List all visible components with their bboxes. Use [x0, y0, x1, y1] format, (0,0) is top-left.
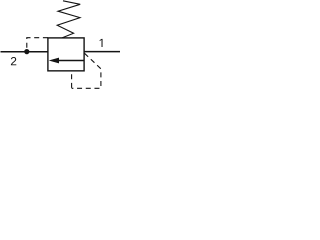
pressure reducing valve schematic [0, 0, 121, 91]
label port 1 [100, 39, 103, 47]
valve body box [48, 38, 84, 71]
wire drain dashed (right) [72, 53, 101, 88]
spring [57, 1, 80, 38]
wire pilot dashed (left) [27, 38, 48, 50]
arrow in valve body [49, 58, 59, 64]
node junction dot [24, 49, 29, 54]
wire port 1 line [84, 51, 120, 53]
label port 2 [11, 57, 16, 65]
wire drain dashed (left vertical to box bottom) [71, 71, 73, 88]
wire port 2 line [1, 51, 48, 53]
